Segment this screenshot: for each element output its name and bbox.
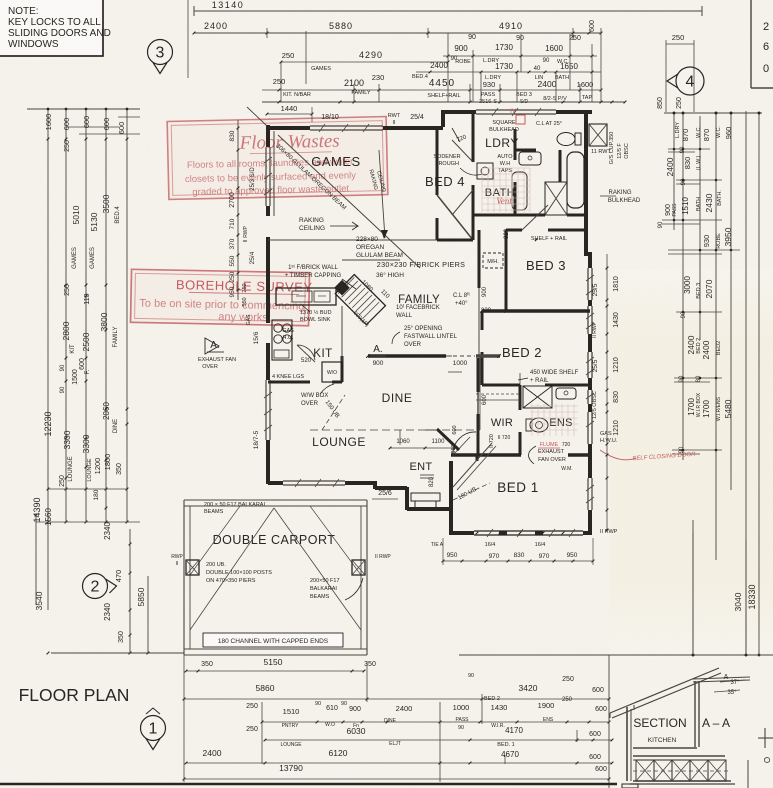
games beam diagonal [278,135,420,268]
dim row 5150 [186,670,364,672]
dim row 2100 4450 [262,89,601,91]
far right partial [758,737,773,739]
vert 3040 18330 [692,520,694,655]
bottom verticals [183,655,185,782]
anno wc toilet [557,133,575,146]
dim row 900 1730 1600 [443,55,597,57]
section A-A drawing [608,655,610,788]
grid ref 1 [141,716,166,741]
carport outline [183,500,185,655]
wir shelf lines [476,393,520,395]
fireplace [335,275,385,325]
wall oven [322,362,342,382]
anno 1440 [267,113,312,115]
red stamp floor wastes [167,117,388,200]
paper speckle texture [0,0,1,1]
dim row 5860 3420 [184,698,609,700]
dims under bed1 [443,560,593,562]
dine ent chamfer [437,429,459,450]
note box key locks [0,0,103,56]
games raking arrow [379,150,385,238]
bath fixtures [567,152,584,208]
anno ent [420,475,434,478]
grid ref 4 [676,67,704,95]
ldry trough fixture [477,163,493,179]
dim row 6030 4170 [265,739,612,741]
red stamp borehole [131,269,313,325]
right low dim verticals [745,654,748,657]
anno wir door arc [453,432,476,455]
bath tiling grid [482,168,530,214]
dim line 13140 top [194,10,702,12]
ldry door diag [452,190,473,215]
window slash marks [319,124,325,132]
border top right [750,0,752,88]
left dim block verticals [47,109,49,610]
dim row 4290 [281,61,448,63]
long line y655 [459,654,773,656]
dim tick line y102 [262,101,625,103]
right dim block lines [664,112,762,114]
carport channel box [203,633,343,647]
left house dim column [237,120,239,300]
anno MH box [483,253,503,268]
dim row 1730 1650 [416,71,601,73]
kitchen bench [276,288,336,305]
ens tiling [530,404,578,436]
grid ref 2 [83,574,108,599]
grid ref 3 [148,40,173,65]
stove [272,320,292,360]
anno bed3 diag door [522,205,548,230]
anno bed2 bed1 window sills [476,532,479,535]
dim verticals top [266,28,268,38]
dine dashed ceiling line [310,429,480,431]
dim row 13790 [184,778,609,780]
interior walls [436,126,439,195]
ens fixtures [523,386,552,408]
house outer walls [268,126,310,130]
dim row 2400 6120 [186,762,612,764]
dim row 1510 etc [262,721,609,723]
bottom page edge line [0,783,617,786]
bed1 robe diag [453,443,492,487]
dim line row2 5880 [194,32,601,34]
left dim block ticks [47,138,50,141]
